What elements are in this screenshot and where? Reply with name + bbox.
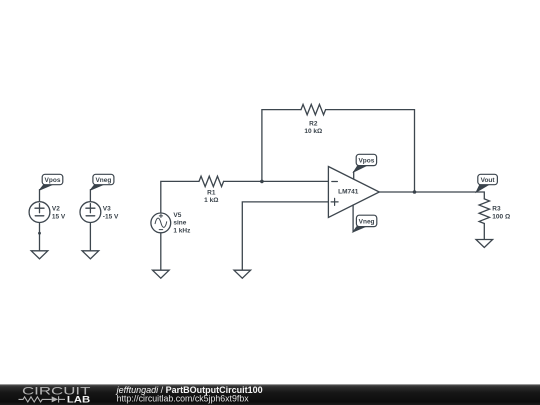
wire R1 to op-amp [224,180,329,182]
svg-text:1 kHz: 1 kHz [173,227,191,234]
wire V2 flag lead [39,190,41,202]
svg-text:15 V: 15 V [52,213,66,220]
svg-text:http://circuitlab.com/ck5jph6x: http://circuitlab.com/ck5jph6xt9fbx [117,394,250,404]
CircuitLab logo schematic: resistor+diode [19,396,66,402]
resistor R2 [301,104,326,114]
ground (V2) [31,251,48,259]
voltage source V2 [29,202,50,223]
net flag Vpos (V2) [40,174,63,190]
junction dot on V2 ground wire [38,232,41,235]
resistor R1 [199,176,224,186]
wire op-amp + input to ground [242,202,328,270]
svg-text:100 Ω: 100 Ω [492,213,510,220]
svg-text:Vout: Vout [481,177,496,184]
svg-text:10 kΩ: 10 kΩ [304,128,322,135]
ground (R3) [476,240,493,248]
wire op-amp output [379,192,484,199]
net flag Vneg (op-amp) [353,215,377,232]
svg-text:Vpos: Vpos [358,157,374,164]
svg-text:V2: V2 [52,206,60,213]
svg-text:-15 V: -15 V [103,213,119,220]
wire V2 to ground [39,222,41,250]
svg-text:sine: sine [173,220,186,227]
wire V5 to R1 [161,181,199,213]
wire V5 to ground [160,233,162,270]
footer bar [0,384,540,405]
net flag Vpos (op-amp) [354,154,377,172]
op-amp Vpos pin [353,172,355,179]
ground (V3) [82,251,99,259]
svg-text:Vneg: Vneg [359,218,375,225]
svg-text:LM741: LM741 [338,188,359,195]
svg-text:V5: V5 [173,212,181,219]
svg-text:LAB: LAB [67,395,91,405]
svg-text:R3: R3 [492,206,501,213]
resistor R3 [479,199,489,224]
net flag Vout [476,174,497,192]
wire feedback right vertical [326,110,415,192]
svg-text:Vpos: Vpos [45,177,61,184]
op-amp U1 LM741 [328,167,379,218]
svg-text:1 kΩ: 1 kΩ [204,197,218,204]
ground (op-amp + input) [234,270,251,278]
junction node out (feedback) [413,190,417,194]
op-amp Vneg pin [352,205,354,232]
ground (V5) [153,270,170,278]
svg-text:Vneg: Vneg [95,177,111,184]
net flag Vneg (V3) [90,174,114,190]
svg-text:R2: R2 [309,121,318,128]
junction node A (R1 / feedback) [260,180,264,184]
voltage source V3 [80,202,101,223]
wire R3 to ground [483,224,485,240]
svg-text:R1: R1 [207,189,216,196]
wire V3 to ground [89,222,91,250]
svg-text:V3: V3 [103,206,111,213]
wire V3 flag lead [89,190,91,202]
wire feedback left vertical [262,110,301,182]
voltage source V5 (sine) [151,213,171,233]
